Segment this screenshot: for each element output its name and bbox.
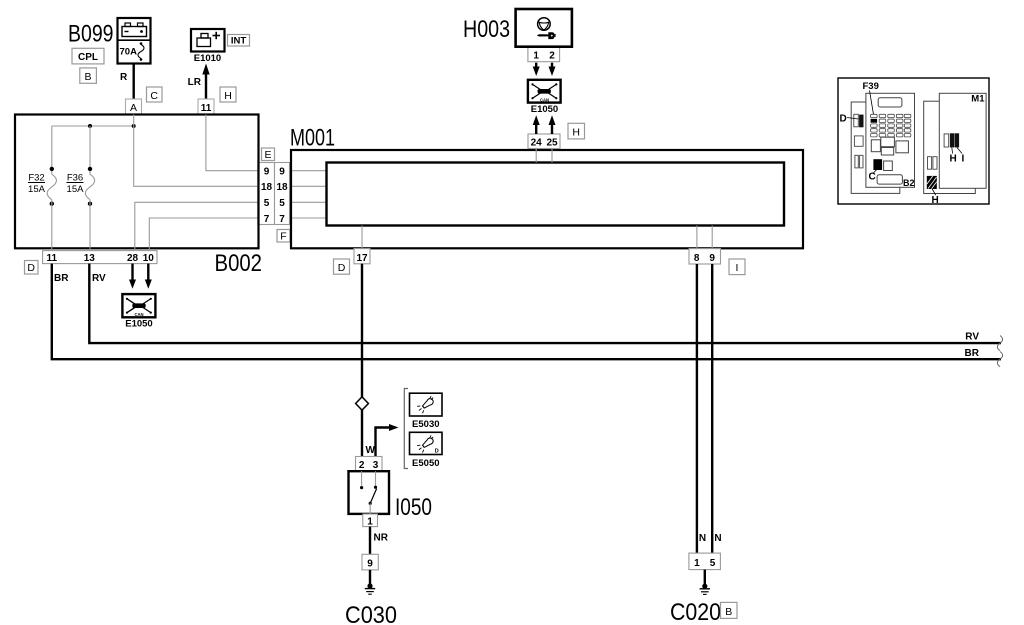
bracket for lamp group	[404, 389, 408, 469]
svg-text:B2: B2	[903, 178, 915, 188]
break squiggle BR	[997, 352, 1002, 367]
svg-text:2: 2	[549, 51, 555, 62]
connector pins 1 2	[528, 47, 560, 62]
inset top slot	[878, 98, 902, 107]
svg-text:D: D	[338, 262, 346, 274]
connector pins 8 9	[689, 249, 721, 264]
label CPL	[72, 48, 104, 64]
wire row 5 to M001	[290, 201, 327, 203]
wires pins 8 9	[697, 226, 712, 249]
inset fuse F39 highlighted	[871, 119, 878, 123]
wire row 9 to M001	[290, 170, 327, 172]
B002 right edge over strip	[257, 162, 259, 226]
connector letter D	[25, 261, 39, 275]
svg-text:I: I	[736, 262, 739, 274]
inset label F39	[863, 81, 879, 115]
svg-text:B002: B002	[215, 250, 263, 277]
svg-text:10: 10	[143, 253, 155, 264]
svg-text:D: D	[27, 262, 35, 274]
wires pins 24 25	[536, 149, 552, 163]
svg-text:H: H	[572, 126, 580, 138]
svg-text:1: 1	[533, 51, 539, 62]
inset label D	[840, 113, 859, 124]
connector letter F	[277, 230, 290, 243]
inset right rear panel	[924, 101, 976, 193]
svg-text:15A: 15A	[67, 184, 85, 195]
inset hatched connector H	[927, 176, 939, 206]
wire pin 17	[361, 226, 363, 249]
inset relay cluster	[871, 137, 908, 155]
inset fuse panel B2	[866, 93, 915, 187]
inset fuse grid	[871, 114, 911, 137]
svg-text:R: R	[120, 72, 128, 83]
svg-text:RV: RV	[965, 332, 979, 343]
inset ECU panel M1	[939, 93, 986, 188]
location inset panel	[838, 78, 989, 204]
svg-text:2: 2	[359, 460, 365, 471]
svg-text:7: 7	[279, 214, 285, 225]
wire R battery to A	[132, 64, 134, 100]
svg-text:W: W	[366, 445, 376, 456]
fuse 70A in battery box	[120, 42, 145, 61]
svg-text:CAN: CAN	[134, 312, 143, 317]
wire N right	[711, 264, 713, 553]
svg-text:5: 5	[710, 558, 716, 569]
battery B099	[118, 18, 151, 64]
connector strip pins 11 13 28 10	[43, 251, 157, 264]
svg-text:E1050: E1050	[125, 319, 152, 330]
svg-text:I050: I050	[395, 494, 432, 521]
svg-text:1: 1	[367, 516, 373, 527]
branch wire to lamps arrow	[376, 424, 399, 457]
diamond connector	[356, 397, 369, 410]
pin strip M001 side 9 18 5 7	[275, 163, 290, 225]
junction unit box B002	[15, 115, 259, 249]
svg-text:H003: H003	[463, 16, 510, 43]
label INT	[228, 35, 250, 47]
svg-text:1: 1	[694, 558, 700, 569]
inset left panel slots	[854, 114, 864, 168]
svg-text:F32: F32	[28, 173, 44, 184]
arrow pin 24 up to E1050	[533, 115, 540, 134]
svg-text:9: 9	[264, 167, 270, 178]
control unit M001 outer	[291, 150, 803, 248]
inset right slots	[928, 157, 938, 170]
switch I050	[349, 471, 390, 514]
svg-text:70A: 70A	[120, 47, 138, 58]
wire row 18 to M001	[290, 185, 327, 187]
inset connectors H I	[944, 133, 964, 164]
svg-text:N: N	[714, 533, 721, 544]
svg-text:E1010: E1010	[194, 53, 221, 64]
wire from A to pin 18 row	[134, 115, 259, 187]
svg-text:CPL: CPL	[78, 52, 98, 63]
svg-text:CAN: CAN	[540, 98, 549, 103]
svg-text:E1050: E1050	[531, 104, 558, 115]
svg-text:F39: F39	[863, 81, 879, 92]
wire W lower	[361, 410, 363, 457]
svg-text:5: 5	[279, 198, 285, 209]
svg-text:B: B	[725, 606, 732, 618]
connector A	[126, 99, 142, 114]
break squiggle RV	[997, 336, 1002, 351]
svg-text:11: 11	[47, 253, 58, 264]
wire internal top horizontal	[52, 125, 134, 127]
svg-text:C020: C020	[670, 599, 721, 625]
svg-text:9: 9	[709, 253, 715, 264]
connector pins 24 25	[528, 134, 560, 149]
svg-text:E5050: E5050	[412, 458, 439, 469]
svg-text:E5030: E5030	[412, 419, 439, 430]
svg-text:D: D	[435, 449, 439, 455]
svg-text:M1: M1	[971, 94, 985, 105]
connector pin 9 (C030)	[362, 554, 378, 570]
inset relay C highlighted	[873, 159, 892, 170]
svg-text:F36: F36	[67, 173, 83, 184]
svg-text:9: 9	[279, 167, 285, 178]
connector pin 1 (I050)	[363, 514, 378, 527]
inset label C	[869, 170, 877, 183]
svg-text:H: H	[224, 90, 232, 102]
wire pin 5 row to pin 28	[135, 202, 259, 250]
connector letter E	[262, 148, 275, 161]
wire BR bus	[52, 264, 1001, 360]
svg-text:B099: B099	[68, 20, 114, 47]
arrow pin 1 down to E1050	[533, 63, 540, 76]
svg-text:M001: M001	[290, 124, 335, 151]
wire W upper	[361, 264, 363, 398]
ground C030	[365, 570, 375, 594]
svg-text:17: 17	[356, 253, 368, 264]
svg-text:D: D	[840, 113, 847, 124]
svg-text:25: 25	[546, 138, 558, 149]
svg-text:I: I	[962, 154, 965, 165]
svg-text:BR: BR	[54, 273, 69, 284]
svg-text:18: 18	[276, 182, 288, 193]
pin strip B002 side 9 18 5 7	[259, 163, 275, 225]
svg-text:5: 5	[264, 198, 270, 209]
junction dot	[88, 124, 92, 128]
arrow pin 25 up to E1050	[549, 115, 556, 134]
svg-text:18: 18	[261, 182, 273, 193]
connector letter H (M001)	[568, 123, 585, 139]
svg-text:9: 9	[367, 558, 373, 569]
svg-text:7: 7	[264, 214, 270, 225]
svg-text:N: N	[699, 533, 706, 544]
lamp E5050	[410, 432, 443, 469]
generator E1010	[191, 29, 225, 64]
svg-text:BR: BR	[965, 348, 980, 359]
ground C020	[700, 570, 710, 595]
wire LR with up arrow to E1010	[202, 64, 209, 100]
connector letter H	[220, 87, 236, 102]
svg-text:F: F	[280, 230, 286, 242]
arrow pin 28 to E1050	[129, 264, 136, 289]
connector pin 11	[198, 99, 214, 114]
svg-text:RV: RV	[92, 273, 106, 284]
connector pins 2 3	[356, 457, 383, 472]
svg-text:C: C	[150, 90, 158, 102]
svg-text:LR: LR	[188, 77, 202, 88]
svg-text:C: C	[869, 172, 876, 183]
connector pin 17	[354, 249, 370, 264]
connector letter D (M001)	[334, 259, 350, 274]
arrow pin 2 down to E1050	[549, 63, 556, 76]
svg-text:INT: INT	[231, 36, 247, 47]
wire from pin 11 to pin 9 row	[206, 115, 259, 171]
svg-text:B: B	[84, 71, 91, 83]
wire row 7 to M001	[290, 217, 327, 219]
svg-text:28: 28	[127, 253, 139, 264]
svg-text:NR: NR	[374, 533, 389, 544]
control unit M001 inner	[327, 163, 785, 226]
svg-text:C030: C030	[345, 602, 397, 625]
wire pin 7 row to pin 10	[149, 218, 258, 251]
fuse F36	[67, 126, 95, 251]
svg-text:3: 3	[373, 460, 379, 471]
junction dot	[132, 124, 136, 128]
CAN node E1050 upper	[528, 80, 561, 115]
svg-text:8: 8	[694, 253, 700, 264]
svg-text:H: H	[932, 195, 939, 206]
device H003	[516, 9, 572, 47]
fuse F32	[28, 126, 56, 251]
connector pins 1 5 (C020)	[689, 553, 721, 570]
lamp E5030	[410, 393, 443, 430]
connector letter B (C020)	[721, 602, 738, 618]
connector letter C	[147, 87, 163, 102]
svg-text:13: 13	[84, 253, 96, 264]
svg-text:24: 24	[531, 138, 543, 149]
svg-text:A: A	[130, 102, 137, 114]
arrow pin 10 to E1050	[145, 264, 152, 289]
inset bottom slot	[877, 175, 902, 184]
CAN node E1050 lower	[122, 294, 155, 329]
svg-text:11: 11	[201, 103, 212, 114]
svg-text:H: H	[950, 154, 957, 165]
svg-text:E: E	[264, 149, 271, 161]
inset left rear panel	[851, 102, 900, 193]
svg-text:15A: 15A	[28, 184, 46, 195]
connector letter B	[80, 68, 97, 83]
connector letter I	[729, 259, 745, 275]
wire N left	[696, 264, 698, 553]
wire NR	[369, 527, 371, 555]
wire RV bus	[89, 264, 1001, 344]
